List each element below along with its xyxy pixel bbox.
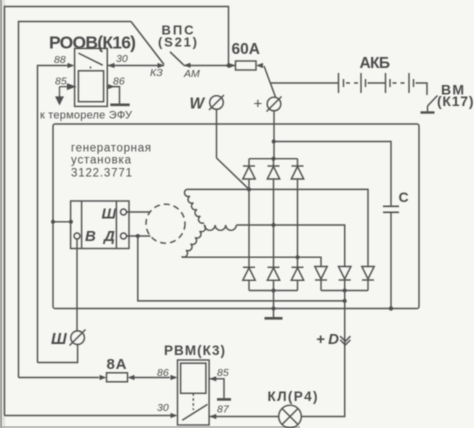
wire AM net: bottom run to RVM pin 30 bbox=[5, 415, 173, 417]
fuse 60A arrow left bbox=[229, 63, 236, 68]
svg-text:КЗ: КЗ bbox=[150, 67, 163, 79]
switch VM stub bbox=[427, 106, 429, 112]
capacitor C top plate bbox=[383, 205, 399, 207]
switch VPS blade bbox=[170, 52, 184, 65]
svg-text:генераторная: генераторная bbox=[71, 143, 151, 155]
pin 30 wire to KZ contact bbox=[107, 65, 164, 67]
wire Sh to rotor bbox=[127, 211, 151, 213]
wire + down into generator bbox=[273, 111, 275, 159]
svg-text:88: 88 bbox=[54, 54, 66, 66]
diode VD2 positive bbox=[267, 159, 279, 225]
diode VD4 negative bbox=[243, 189, 255, 290]
wire Sh down and U-turn bbox=[38, 345, 78, 363]
fuse 60A arrow right bbox=[256, 63, 263, 68]
wire W down bbox=[216, 109, 218, 158]
svg-text:АКБ: АКБ bbox=[360, 55, 391, 72]
regulator terminal Sh circle bbox=[121, 209, 127, 215]
terminal +D chevron bbox=[340, 336, 350, 345]
battery cell2 short plate bbox=[365, 79, 367, 87]
svg-text:(К17): (К17) bbox=[437, 93, 474, 109]
pin 30 arrow bbox=[108, 63, 115, 68]
svg-text:Д: Д bbox=[102, 228, 115, 245]
svg-text:РВМ(К3): РВМ(К3) bbox=[164, 343, 225, 358]
fuse 8A wire left bbox=[19, 377, 100, 379]
node minus bus bbox=[272, 289, 276, 293]
fuse 8A body bbox=[107, 373, 128, 382]
+ bus bbox=[249, 158, 298, 160]
diode VD7 field bbox=[315, 267, 327, 291]
wire 8A to RVM pin 86 bbox=[135, 377, 171, 379]
terminal Sh slash bbox=[70, 330, 86, 346]
wire minus to case bbox=[273, 291, 275, 318]
svg-text:к термореле ЭФУ: к термореле ЭФУ bbox=[40, 110, 133, 122]
pin 85 wire to ground bbox=[209, 379, 224, 399]
svg-text:Ш: Ш bbox=[102, 206, 117, 223]
ground ROOV pin86 bbox=[107, 87, 119, 104]
node case left bbox=[51, 220, 55, 224]
relay RVM dashed link bbox=[192, 393, 194, 410]
node D to +D bbox=[343, 299, 347, 303]
regulator terminal D circle bbox=[121, 233, 127, 239]
minus bus bbox=[249, 290, 298, 292]
svg-text:60А: 60А bbox=[232, 41, 261, 58]
battery cell4 long plate bbox=[408, 73, 410, 93]
diode VD9 field bbox=[362, 267, 374, 291]
lamp KL(P4) cross bbox=[282, 409, 298, 425]
wire D to rotor bbox=[127, 235, 151, 237]
battery dashed link2 bbox=[393, 82, 406, 84]
diode VD1 positive bbox=[243, 159, 255, 190]
battery dashed link1 bbox=[346, 82, 359, 84]
node cap case bbox=[389, 306, 393, 310]
fuse 60A body bbox=[236, 61, 257, 70]
stator winding phase2 coil bbox=[205, 225, 237, 230]
generator box bbox=[53, 124, 419, 309]
capacitor C branch top bbox=[274, 142, 391, 207]
wire case to regulator bbox=[53, 221, 71, 223]
svg-text:3122.3771: 3122.3771 bbox=[71, 168, 132, 180]
field bus bbox=[321, 290, 368, 292]
ground RVM bar bbox=[217, 398, 231, 401]
fuse 8A arrow left bbox=[100, 375, 107, 380]
svg-text:8А: 8А bbox=[107, 356, 127, 373]
svg-text:Ш: Ш bbox=[51, 331, 67, 348]
regulator terminal V circle bbox=[74, 233, 80, 239]
svg-text:87: 87 bbox=[217, 404, 230, 416]
wire AM to fuse junction bbox=[184, 65, 236, 67]
ground VM bar bbox=[421, 111, 435, 113]
wire W diagonal to phase1 bbox=[217, 158, 249, 189]
svg-text:В: В bbox=[85, 228, 96, 245]
svg-text:С: С bbox=[399, 189, 409, 205]
node minus case bbox=[272, 307, 276, 311]
wire +D down bbox=[301, 291, 344, 417]
stator winding lower edge bbox=[182, 225, 206, 257]
diode VD3 positive bbox=[291, 159, 303, 258]
svg-text:85: 85 bbox=[55, 76, 67, 88]
diode VD8 field bbox=[339, 267, 351, 291]
battery mid wire bbox=[368, 82, 386, 84]
regulator divider left bbox=[81, 201, 83, 249]
battery cell1 short plate bbox=[343, 79, 345, 87]
pin 85 arrow bbox=[209, 376, 216, 381]
KZ contact arrow bbox=[158, 63, 165, 68]
node field bus bbox=[343, 289, 347, 293]
relay RVM switch blade bbox=[182, 404, 207, 420]
pin 30 arrow bbox=[171, 413, 178, 418]
node phase3 diode3 bbox=[296, 255, 300, 259]
lamp KL(P4) circle bbox=[279, 405, 302, 428]
svg-text:30: 30 bbox=[116, 53, 128, 65]
pin 88 arrow bbox=[68, 63, 75, 68]
pin 87 arrow bbox=[209, 414, 216, 419]
wire V down to Sh terminal bbox=[76, 239, 78, 331]
svg-text:+: + bbox=[254, 96, 263, 113]
terminal W circle bbox=[210, 96, 224, 110]
battery cell4 short plate bbox=[413, 79, 415, 87]
wire KZ net: second top line bbox=[19, 22, 132, 378]
node + cap branch bbox=[272, 140, 276, 144]
svg-text:КЛ(Р4): КЛ(Р4) bbox=[268, 389, 318, 404]
relay RVM(K3) box bbox=[178, 360, 210, 425]
svg-text:30: 30 bbox=[157, 402, 169, 414]
battery AKB cell1 long plate bbox=[338, 73, 340, 93]
svg-text:установка: установка bbox=[71, 155, 132, 167]
wire battery feed bbox=[271, 82, 339, 84]
relay ROOV switch blade bbox=[78, 53, 102, 65]
svg-text:РООВ(К16): РООВ(К16) bbox=[49, 33, 136, 53]
pin 86 RVM arrow bbox=[171, 375, 178, 380]
terminal W slash bbox=[209, 95, 224, 110]
wire battery to VM switch bbox=[416, 83, 428, 95]
rotor bbox=[146, 204, 185, 243]
battery cell3 short plate bbox=[389, 79, 391, 87]
switch blade to + terminal bbox=[264, 66, 276, 97]
fuse 8A arrow right bbox=[128, 375, 135, 380]
wire D down and right to +D bbox=[138, 236, 345, 301]
svg-text:АМ: АМ bbox=[183, 68, 200, 80]
stator phase1 wire bbox=[187, 189, 369, 266]
svg-text:85: 85 bbox=[217, 367, 229, 379]
ground rectifier bar bbox=[265, 317, 283, 320]
node phase1 diode1 bbox=[247, 187, 251, 191]
terminal + circle bbox=[267, 97, 281, 111]
regulator box bbox=[71, 201, 129, 249]
stator phase2 wire bbox=[237, 225, 345, 267]
diode VD6 negative bbox=[291, 257, 303, 290]
svg-text:+D: +D bbox=[316, 331, 339, 348]
wire Sh net: left vertical up to pin 88 bbox=[38, 66, 73, 363]
regulator divider right bbox=[115, 201, 117, 249]
wire AM net: outer frame top bbox=[5, 7, 229, 416]
node regulator case bbox=[69, 220, 73, 224]
relay RVM coil bbox=[181, 363, 206, 393]
arrow k termorele bbox=[56, 87, 63, 104]
node phase2 diode2 bbox=[272, 223, 276, 227]
pin 87 wire bbox=[209, 416, 279, 418]
relay ROOV(K16) box bbox=[75, 48, 108, 106]
diode VD5 negative bbox=[267, 225, 279, 291]
svg-text:W: W bbox=[190, 96, 206, 113]
svg-text:86: 86 bbox=[113, 76, 125, 88]
terminal Sh circle bbox=[71, 331, 85, 345]
node + bus bbox=[272, 157, 276, 161]
relay ROOV dashed link bbox=[90, 67, 92, 71]
battery cell3 long plate bbox=[385, 73, 387, 93]
terminal + slash bbox=[267, 97, 282, 112]
stator phase3 wire bbox=[182, 257, 321, 266]
relay ROOV coil bbox=[78, 71, 103, 102]
wire pin85 bbox=[60, 84, 75, 89]
node D junction bbox=[136, 234, 140, 238]
stator winding upper edge bbox=[184, 189, 204, 223]
svg-text:86: 86 bbox=[157, 367, 169, 379]
node fuse junction bbox=[227, 64, 231, 68]
wire KZ diagonal down to contact bbox=[131, 22, 164, 65]
capacitor C bottom plate bbox=[383, 211, 399, 213]
battery cell2 long plate bbox=[360, 73, 362, 93]
AM contact arrow bbox=[184, 63, 191, 68]
capacitor C wire down bbox=[390, 212, 392, 308]
switch VM blade bbox=[428, 96, 438, 107]
